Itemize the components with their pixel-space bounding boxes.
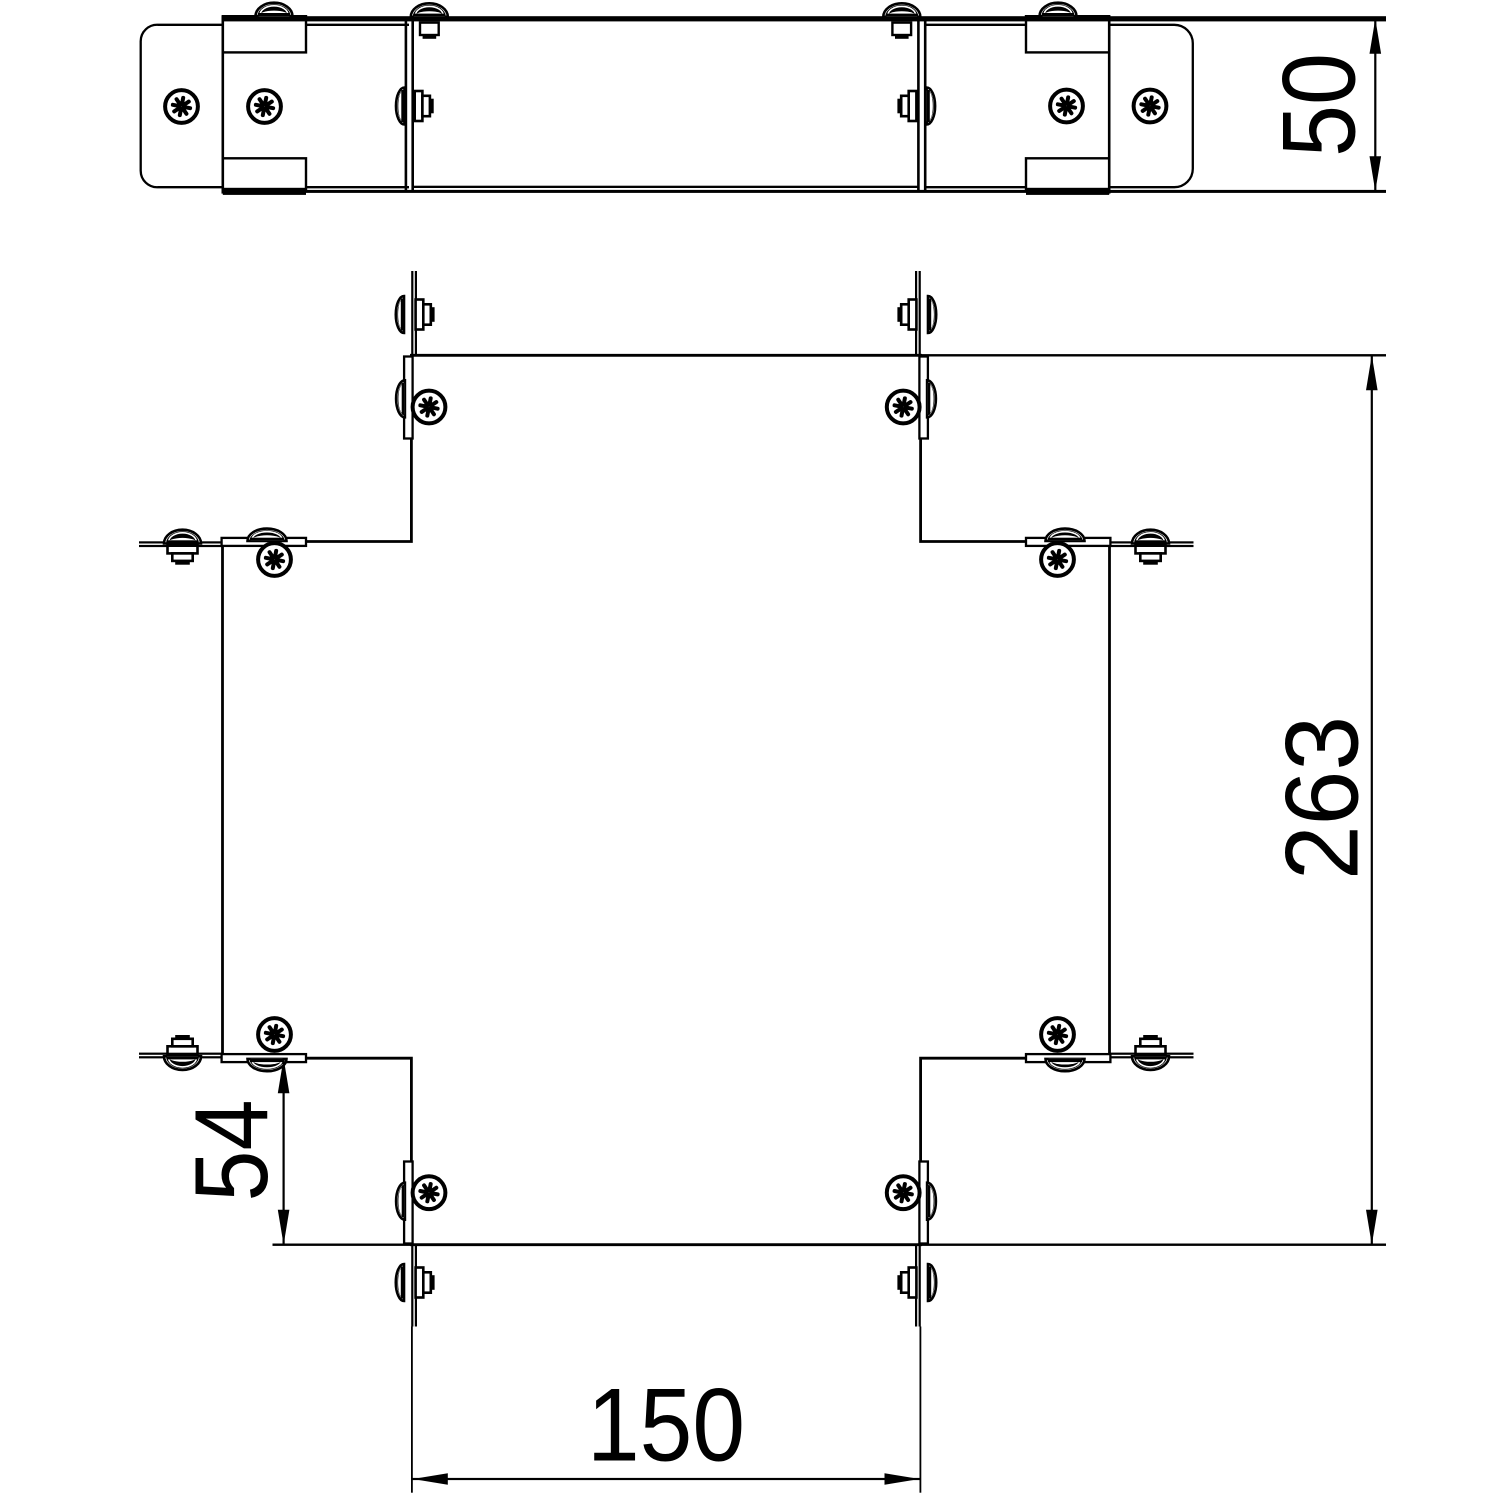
dimension 150: arrows [413, 1473, 448, 1485]
plan: clamp bracket right-bottom [1026, 1054, 1110, 1062]
side view: right clip bottom tab [1026, 158, 1109, 189]
side view: left divider middle screw nut [415, 91, 423, 121]
side view: pozidriv screw left clip [248, 90, 281, 123]
plan: pozidriv left-bottom [258, 1018, 291, 1051]
plan: pozidriv right-bottom [1041, 1018, 1074, 1051]
plan: clamp screw dome bottom-left [396, 1183, 405, 1220]
plan: bottom arm left wall stub [411, 1245, 413, 1327]
plan: top arm right wall stub [919, 271, 921, 355]
side view: right divider middle screw head [927, 88, 936, 125]
plan: clamp screw dome top-left [396, 380, 405, 417]
side view: pozidriv screw right clip [1050, 90, 1083, 123]
plan: pozidriv bottom-right [887, 1176, 920, 1209]
plan: clamp bracket top-left [404, 357, 413, 439]
dimension 263: arrows [1366, 355, 1378, 390]
plan: clamp bracket bottom-right [919, 1162, 928, 1244]
plan: bottom arm right wall stub [919, 1245, 921, 1327]
plan: clamp bracket bottom-left [404, 1162, 413, 1244]
dimension 263: dimension line [1371, 355, 1373, 1244]
plan: left arm top wall stub [139, 541, 223, 543]
side view: pozidriv screw far right [1134, 90, 1167, 123]
dimension 50: dimension line [1374, 19, 1376, 192]
svg-text:150: 150 [587, 1368, 745, 1484]
side view: left clip edge and bottom [222, 16, 225, 193]
plan: side screw top arm left [396, 296, 404, 333]
side view: right clip top tab [1026, 16, 1109, 52]
side view: left clip top tab [223, 16, 306, 52]
plan: side screw left arm top [164, 530, 201, 544]
svg-text:54: 54 [174, 1100, 290, 1202]
side view: right divider top bolt nut [892, 23, 911, 35]
plan: clamp bracket left-top [222, 538, 306, 546]
side view: right clip edge and bottom [1108, 16, 1111, 193]
dimension 150: extension lines [411, 1327, 413, 1493]
plan: cross cover outline [223, 355, 1110, 1244]
plan: side screw left arm bottom [164, 1056, 201, 1070]
plan: pozidriv top-left [413, 391, 446, 424]
side view: left clip bottom tab [223, 158, 306, 189]
side view: left end cap cover [141, 25, 409, 187]
svg-text:50: 50 [1262, 53, 1378, 157]
dimension 54: arrows [278, 1058, 290, 1093]
plan: pozidriv left-top [258, 543, 291, 576]
plan: clamp screw dome top-right [927, 380, 936, 417]
plan: side screw right arm top [1132, 530, 1169, 544]
side view: left clip clamp screw head [256, 3, 293, 17]
plan: right arm top wall stub [1110, 541, 1194, 543]
plan: clamp bracket top-right [919, 357, 928, 439]
plan: clamp bracket right-top [1026, 538, 1110, 546]
dimension 50: arrows [1370, 19, 1382, 54]
side view: left divider middle screw head [396, 88, 405, 125]
side view: right divider top bolt head [883, 3, 920, 17]
plan: clamp screw dome right-bottom [1046, 1059, 1085, 1071]
side view: right end cap cover [925, 25, 1193, 187]
plan: clamp screw dome left-bottom [248, 1059, 287, 1071]
plan: top arm left wall stub [411, 271, 413, 355]
plan: right arm bottom wall stub [1110, 1056, 1194, 1058]
plan: side screw bottom arm right [928, 1264, 936, 1301]
dimension 150: dimension line [412, 1478, 921, 1480]
side view: left divider top bolt head [411, 3, 448, 17]
plan: pozidriv right-top [1041, 543, 1074, 576]
plan: side screw right arm bottom [1132, 1056, 1169, 1070]
side view: body bottom edge line [223, 190, 1386, 193]
side view: pozidriv screw far left [165, 90, 198, 123]
side view: left divider joint [405, 18, 408, 192]
svg-text:263: 263 [1265, 716, 1381, 880]
dimension 54: dimension line [283, 1058, 285, 1245]
plan: clamp screw dome left-top [248, 529, 287, 541]
side view: middle cover bottom edge [413, 186, 918, 188]
plan: side screw bottom arm left [396, 1264, 404, 1301]
side view: right divider joint [917, 18, 920, 192]
plan: clamp bracket left-bottom [222, 1054, 306, 1062]
side view: right clip clamp screw head [1040, 3, 1077, 17]
plan: clamp screw dome bottom-right [927, 1183, 936, 1220]
side view: right divider middle screw nut [909, 91, 917, 121]
dimension 263 and 54: bottom extension lines [273, 1244, 412, 1246]
side view: body top edge band [223, 16, 1386, 21]
plan: clamp screw dome right-top [1046, 529, 1085, 541]
plan: pozidriv bottom-left [413, 1176, 446, 1209]
plan: pozidriv top-right [887, 391, 920, 424]
plan: side screw top arm right [928, 296, 936, 333]
side view: left divider top bolt nut [420, 23, 439, 35]
plan: left arm bottom wall stub [139, 1056, 223, 1058]
dimension 263: top extension line [921, 354, 1386, 356]
